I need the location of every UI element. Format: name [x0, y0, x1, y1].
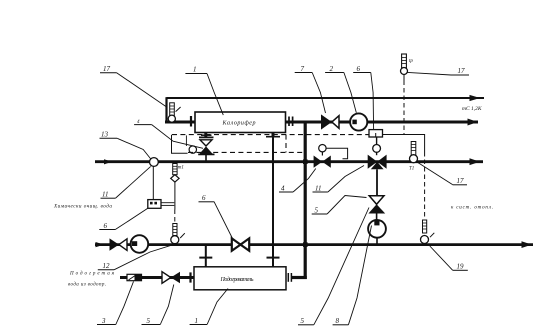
svg-text:2: 2 — [330, 65, 334, 73]
heat exchanger box Калорифер — [195, 112, 286, 133]
label 12 left with leader — [98, 246, 171, 270]
label 6 top with leader — [353, 73, 373, 130]
wire riser x=305 supply branch — [304, 122, 307, 245]
svg-text:1: 1 — [195, 317, 199, 325]
wire bottom feed pipe y=277.5 — [120, 276, 194, 279]
heat exchanger box Подогреватель — [194, 267, 286, 290]
label 8 bottom with leader — [333, 226, 372, 325]
label 7 top with leader — [295, 73, 326, 114]
wire dashed impulse from top thermometer x=404 — [403, 81, 405, 135]
label 6 mid with leader — [199, 202, 234, 241]
svg-text:вода из водопр.: вода из водопр. — [68, 283, 106, 288]
wire stubs into lower box top — [199, 245, 279, 267]
flange at feed inlet of lower box — [189, 272, 191, 282]
node junction riser/lower pipe — [303, 242, 308, 247]
svg-text:5: 5 — [147, 317, 151, 325]
wire impulse elbow from controller to lower sensor — [383, 135, 425, 220]
flanges right of heater box — [289, 117, 293, 127]
pump P2 on main pipe — [350, 113, 367, 130]
svg-text:Химически очищ. вода: Химически очищ. вода — [53, 203, 112, 210]
label 11 left with leader — [101, 166, 151, 198]
svg-text:3: 3 — [101, 317, 106, 325]
thermometer TE at elbow — [168, 103, 180, 122]
check valve on feed pipe — [162, 272, 180, 284]
svg-text:1: 1 — [193, 66, 197, 74]
label 1 bottom with leader — [190, 289, 228, 325]
label 11 mid with leader — [313, 166, 365, 193]
svg-text:17: 17 — [457, 177, 465, 185]
label 4 mid with leader — [279, 169, 316, 193]
thermometer on lower pipe left — [171, 224, 185, 244]
svg-text:12: 12 — [103, 262, 111, 270]
flanges right of lower box and elbow to riser — [288, 245, 307, 282]
controller box left — [148, 200, 175, 209]
label 17 mid right with leader — [418, 162, 467, 184]
3-way valve V4 — [368, 155, 387, 196]
wire left elbow riser x=166.5 — [165, 97, 167, 123]
thermometer top right x=404 — [401, 54, 408, 81]
wire middle pipe y=161.5 — [95, 158, 483, 165]
flange left of heater box — [190, 116, 192, 127]
pump P3 vertical branch — [368, 220, 386, 245]
svg-text:Калорифер: Калорифер — [222, 120, 256, 127]
label 6 left with leader — [99, 208, 148, 229]
label 1 top with leader — [185, 74, 223, 116]
svg-text:5: 5 — [301, 317, 305, 325]
svg-text:11: 11 — [315, 185, 321, 193]
label 17 top left with leader — [100, 73, 167, 108]
wire dashed control enclosure — [172, 135, 369, 153]
svg-text:17: 17 — [103, 65, 111, 73]
wire dashed impulse line x=175 — [174, 210, 176, 223]
node junction riser/middle pipe — [303, 159, 308, 164]
svg-text:11: 11 — [102, 191, 108, 199]
wire main supply pipe y=122 — [165, 119, 478, 126]
svg-text:8: 8 — [336, 317, 340, 325]
svg-text:6: 6 — [202, 194, 206, 202]
svg-text:6: 6 — [104, 222, 108, 230]
svg-text:Подогреватель: Подогреватель — [220, 276, 254, 283]
check valve on main pipe after heater — [321, 114, 339, 129]
svg-text:19: 19 — [457, 263, 465, 271]
valve V6 on lower pipe — [232, 238, 249, 250]
thermometer on middle pipe right x=413.5 — [410, 142, 418, 163]
wire lower pipe y=244.5 — [95, 241, 533, 248]
label 4 small near elbow with leader — [134, 125, 203, 149]
controller box above 3-way valve — [369, 130, 383, 137]
filter box on feed pipe — [127, 274, 142, 280]
svg-text:4: 4 — [281, 185, 285, 193]
label 17 top right with leader — [407, 72, 469, 75]
svg-text:к сист. отопл.: к сист. отопл. — [451, 206, 493, 211]
shut-off valve V5 vertical — [368, 196, 385, 220]
svg-text:5: 5 — [315, 206, 319, 214]
wire port stubs under heater box — [206, 133, 273, 138]
svg-text:тС 1,2К: тС 1,2К — [462, 106, 482, 112]
thermometer on lower pipe right x=424.5 — [421, 220, 435, 244]
svg-text:Т1: Т1 — [409, 167, 414, 172]
pump P1 lower left — [131, 235, 149, 253]
label 19 bottom right with leader — [430, 246, 468, 270]
sensor circle on middle pipe — [150, 158, 159, 200]
label 5 mid with leader — [312, 196, 367, 215]
label 2 top with leader — [325, 73, 356, 113]
check valve on lower pipe — [110, 238, 128, 250]
svg-text:tр: tр — [409, 59, 413, 64]
control valve CV1 under left port — [186, 135, 214, 161]
label 5 bottom with leader — [142, 285, 174, 325]
actuator stem and circle of 3-way valve — [373, 137, 381, 155]
svg-text:13: 13 — [101, 131, 109, 139]
svg-text:6: 6 — [357, 65, 361, 73]
svg-text:т1: т1 — [178, 166, 184, 171]
label 13 left with leader — [100, 138, 151, 158]
control valve V3 on middle pipe — [314, 145, 348, 168]
wire riser x=273 heater return — [266, 137, 280, 258]
svg-text:7: 7 — [301, 65, 305, 73]
svg-text:17: 17 — [458, 67, 466, 75]
label 5 bottom second with leader — [298, 208, 369, 325]
thermowell with diamond under middle pipe — [171, 164, 179, 210]
wire top supply pipe y=98 — [167, 95, 485, 101]
wire thin link to valve actuator — [172, 135, 188, 153]
label 3 bottom with leader — [97, 282, 134, 325]
